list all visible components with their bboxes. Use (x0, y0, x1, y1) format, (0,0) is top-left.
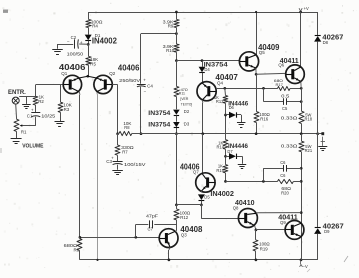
svg-text:Q8: Q8 (233, 205, 239, 210)
svg-text:40406: 40406 (118, 63, 140, 72)
svg-text:R5: R5 (90, 61, 96, 66)
svg-text:Q6: Q6 (278, 63, 284, 68)
svg-text:R9: R9 (168, 23, 174, 28)
svg-text:R20: R20 (281, 191, 289, 196)
svg-text:Q2: Q2 (109, 71, 116, 76)
svg-text:R16: R16 (260, 116, 268, 121)
svg-text:C7: C7 (148, 227, 154, 232)
svg-text:R8: R8 (124, 125, 130, 130)
svg-text:R3: R3 (64, 107, 70, 112)
svg-text:C6: C6 (280, 173, 286, 178)
svg-text:ENTR.: ENTR. (8, 89, 26, 96)
svg-text:R12: R12 (180, 215, 188, 220)
svg-text:IN3754: IN3754 (148, 122, 170, 129)
svg-text:250/50V: 250/50V (119, 78, 140, 83)
svg-text:IN4002: IN4002 (210, 189, 234, 198)
svg-text:R10: R10 (166, 48, 175, 53)
svg-text:[VER: [VER (180, 97, 188, 101)
svg-text:0.5: 0.5 (281, 93, 290, 98)
svg-text:−V: −V (303, 264, 308, 269)
svg-text:0.33Ω: 0.33Ω (281, 115, 298, 120)
svg-text:D8: D8 (323, 40, 329, 45)
svg-text:R4: R4 (92, 24, 98, 29)
svg-text:C3: C3 (106, 159, 112, 164)
svg-text:D9: D9 (324, 229, 330, 234)
svg-text:R11: R11 (179, 92, 185, 96)
svg-text:Q4: Q4 (217, 80, 224, 85)
svg-text:R18: R18 (305, 117, 313, 122)
svg-text:D6: D6 (229, 105, 235, 110)
svg-text:R2: R2 (38, 99, 44, 104)
svg-text:Q7: Q7 (193, 169, 199, 174)
svg-text:D5: D5 (204, 194, 210, 199)
svg-text:Q5: Q5 (259, 50, 266, 55)
svg-text:0.33Ω: 0.33Ω (281, 144, 298, 149)
svg-text:R1: R1 (21, 129, 27, 134)
svg-text:100/15V: 100/15V (124, 162, 146, 167)
svg-text:R7: R7 (122, 150, 128, 155)
svg-text:C5: C5 (282, 106, 288, 111)
svg-text:D7: D7 (227, 149, 233, 154)
svg-text:VOLUME: VOLUME (22, 143, 44, 149)
svg-text:+: + (143, 78, 146, 83)
svg-text:C2: C2 (71, 35, 77, 40)
svg-text:−: − (67, 39, 70, 44)
svg-text:10/25: 10/25 (41, 113, 56, 118)
svg-text:+: + (31, 107, 34, 112)
svg-text:47pF: 47pF (146, 214, 159, 219)
svg-text:R19: R19 (260, 246, 268, 251)
svg-text:R21: R21 (305, 148, 313, 153)
svg-text:Q3: Q3 (181, 233, 187, 238)
svg-text:R15: R15 (216, 168, 224, 173)
svg-text:D4: D4 (204, 67, 210, 72)
svg-text:D2: D2 (184, 109, 190, 114)
svg-text:−: − (144, 89, 147, 94)
svg-text:+: + (80, 40, 83, 45)
svg-text:Q1: Q1 (61, 71, 68, 76)
svg-text:R6: R6 (74, 247, 80, 252)
svg-text:R13: R13 (216, 99, 224, 104)
svg-text:IN4002: IN4002 (92, 36, 118, 45)
svg-text:C1: C1 (27, 114, 33, 119)
svg-text:C4: C4 (147, 84, 153, 89)
svg-text:D3: D3 (184, 122, 190, 127)
svg-text:R17: R17 (276, 82, 284, 87)
svg-text:R14: R14 (216, 145, 224, 150)
svg-text:100/50: 100/50 (67, 52, 84, 57)
svg-text:Q9: Q9 (280, 220, 286, 225)
svg-text:C6: C6 (280, 160, 286, 165)
svg-text:IN3754: IN3754 (148, 110, 170, 117)
svg-text:TEXTO]: TEXTO] (181, 102, 192, 106)
svg-text:+V: +V (304, 6, 309, 11)
